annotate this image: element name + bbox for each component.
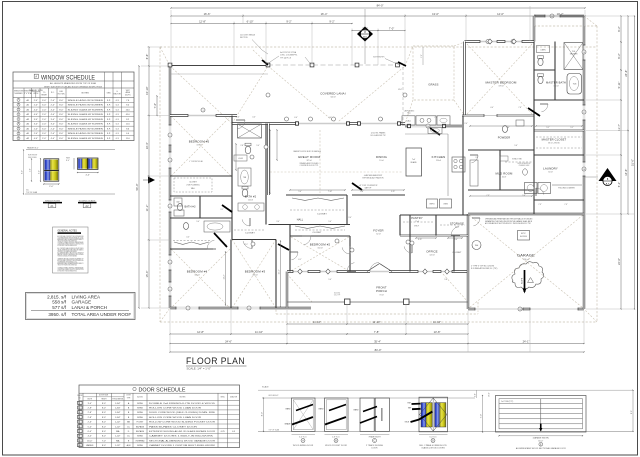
svg-text:WIDTH: WIDTH <box>33 93 38 95</box>
svg-text:13'-0": 13'-0" <box>432 12 439 16</box>
svg-text:4'-0": 4'-0" <box>252 117 256 119</box>
svg-text:40 s/f: 40 s/f <box>502 177 507 179</box>
svg-text:CABNET DOORS 1 BUILT-IN BILLWO: CABNET DOORS 1 BUILT-IN BILLWORK <box>149 435 214 438</box>
svg-text:MASTER CLOSET: MASTER CLOSET <box>542 138 567 142</box>
svg-text:SLIDING GLASS W/ SCREEN: SLIDING GLASS W/ SCREEN <box>68 108 104 111</box>
svg-text:SINGLE HUNG W/ SCREEN: SINGLE HUNG W/ SCREEN <box>68 105 104 107</box>
svg-text:BI-PASS: BI-PASS <box>136 425 145 428</box>
svg-text:84'-0": 84'-0" <box>375 348 382 352</box>
svg-text:1-1/2": 1-1/2" <box>115 426 121 428</box>
svg-text:100 s/f: 100 s/f <box>553 86 559 88</box>
svg-text:BUILT-IN BENCH W/: BUILT-IN BENCH W/ <box>518 163 532 165</box>
svg-text:PAINT: PAINT <box>286 408 291 411</box>
svg-text:8'-0": 8'-0" <box>102 436 106 438</box>
svg-text:TMP: TMP <box>407 402 410 404</box>
svg-text:372 s/f: 372 s/f <box>306 160 312 162</box>
svg-text:S.P.: S.P. <box>107 138 111 140</box>
svg-text:BI-PASS: BI-PASS <box>136 430 145 433</box>
svg-text:BEDROOM #2: BEDROOM #2 <box>310 243 331 247</box>
svg-text:7'-8": 7'-8" <box>374 330 379 334</box>
svg-text:SLOPE: SLOPE <box>521 277 523 284</box>
svg-text:(TUB PLUMBING): (TUB PLUMBING) <box>186 185 199 187</box>
svg-text:3'-0": 3'-0" <box>29 168 31 172</box>
svg-text:2'-8": 2'-8" <box>240 145 244 147</box>
svg-text:6'-2": 6'-2" <box>617 53 621 58</box>
svg-text:14'-0": 14'-0" <box>497 12 504 16</box>
svg-text:8'-0": 8'-0" <box>102 403 106 405</box>
svg-text:5'-0": 5'-0" <box>88 426 92 428</box>
svg-text:8'-0": 8'-0" <box>59 109 63 111</box>
svg-text:558 s/f: 558 s/f <box>523 259 529 261</box>
svg-text:3'-11": 3'-11" <box>391 191 396 193</box>
svg-text:DOUBLE 2x6 FRENCH LITE DOOR &: DOUBLE 2x6 FRENCH LITE DOOR & WOOD <box>149 403 216 405</box>
svg-text:KITCHEN: KITCHEN <box>432 155 446 159</box>
svg-text:15'-10": 15'-10" <box>145 87 149 95</box>
svg-text:A2: A2 <box>85 204 89 208</box>
svg-text:SEE SCHED.: SEE SCHED. <box>28 157 38 159</box>
svg-text:2'-0": 2'-0" <box>34 128 38 130</box>
svg-text:TYPE: TYPE <box>127 397 131 399</box>
svg-text:5'-1": 5'-1" <box>546 127 550 129</box>
svg-text:A1: A1 <box>50 204 54 208</box>
svg-text:CLOSET: CLOSET <box>245 233 255 235</box>
svg-text:CUBBIES OVER: CUBBIES OVER <box>519 165 529 167</box>
svg-text:SHELF: SHELF <box>414 226 419 228</box>
svg-text:4'-0": 4'-0" <box>34 114 38 116</box>
svg-text:10: 10 <box>79 445 81 447</box>
svg-text:3'-0": 3'-0" <box>42 105 46 107</box>
svg-text:7'-3": 7'-3" <box>538 204 542 206</box>
svg-text:DOOR: DOOR <box>372 448 379 450</box>
svg-text:CABNET DOORS 1 CUSTOM BUILT-IN: CABNET DOORS 1 CUSTOM BUILT-IN BILLWORK <box>149 444 216 447</box>
svg-text:GRADE: GRADE <box>284 423 291 426</box>
svg-text:84'-0": 84'-0" <box>377 4 384 8</box>
svg-text:BEDROOM #5: BEDROOM #5 <box>189 140 210 144</box>
svg-text:MASTER BATH: MASTER BATH <box>546 81 566 85</box>
svg-text:GLASS & WOOD DOORS: GLASS & WOOD DOORS <box>421 447 445 450</box>
svg-text:S.P.: S.P. <box>107 119 111 121</box>
svg-text:BEDROOM #4: BEDROOM #4 <box>187 270 208 274</box>
svg-text:16: 16 <box>583 52 585 54</box>
svg-text:3: 3 <box>79 412 80 414</box>
svg-text:(SQ FT): (SQ FT) <box>125 94 131 96</box>
svg-text:8'-0": 8'-0" <box>59 138 63 140</box>
svg-text:24'-6": 24'-6" <box>225 340 232 344</box>
svg-text:8'-0": 8'-0" <box>21 170 23 174</box>
svg-text:14'-6": 14'-6" <box>398 89 403 91</box>
svg-text:16'-4": 16'-4" <box>321 12 328 16</box>
svg-text:SWING: SWING <box>137 436 143 438</box>
svg-text:2'-8": 2'-8" <box>88 417 92 419</box>
svg-text:1-3/4": 1-3/4" <box>115 417 121 419</box>
svg-text:2x6 CONT. FASCIA: 2x6 CONT. FASCIA <box>240 34 256 37</box>
svg-text:3: 3 <box>169 160 170 162</box>
svg-text:5'-0": 5'-0" <box>196 221 200 223</box>
svg-text:160 s/f: 160 s/f <box>252 275 258 277</box>
svg-text:2'-6": 2'-6" <box>88 422 92 424</box>
svg-text:7: 7 <box>187 308 188 310</box>
svg-text:7'-0": 7'-0" <box>389 27 394 31</box>
svg-text:SWING: SWING <box>137 412 143 414</box>
svg-text:TOTAL AREA UNDER ROOF: TOTAL AREA UNDER ROOF <box>72 312 132 317</box>
svg-text:HDR HEIGHT: HDR HEIGHT <box>28 154 37 156</box>
svg-text:11'-10": 11'-10" <box>313 320 321 324</box>
svg-text:1-1/2": 1-1/2" <box>115 422 121 424</box>
svg-text:2'-0": 2'-0" <box>34 100 38 102</box>
svg-text:5'-2": 5'-2" <box>617 182 621 187</box>
svg-text:170 s/f: 170 s/f <box>196 145 202 147</box>
svg-text:13'-2": 13'-2" <box>224 274 226 279</box>
svg-text:16x16 SQ: 16x16 SQ <box>334 293 341 295</box>
svg-text:HDR: HDR <box>66 158 71 160</box>
svg-text:CC: CC <box>127 426 130 428</box>
svg-text:MUD ROOM: MUD ROOM <box>495 172 513 176</box>
svg-text:2'-0": 2'-0" <box>51 105 55 107</box>
svg-text:8'-0": 8'-0" <box>59 124 63 126</box>
svg-text:73 s/f: 73 s/f <box>379 294 384 296</box>
svg-text:HDR HEIGHT: HDR HEIGHT <box>269 395 279 397</box>
svg-text:7'-0": 7'-0" <box>102 440 106 442</box>
svg-text:2'-0": 2'-0" <box>42 114 46 116</box>
svg-text:8'-0": 8'-0" <box>631 410 633 414</box>
svg-text:7'-4": 7'-4" <box>153 103 157 108</box>
svg-text:2'-0": 2'-0" <box>42 124 46 126</box>
svg-text:CC: CC <box>127 436 130 438</box>
svg-text:1: 1 <box>202 110 203 112</box>
svg-text:8'-0": 8'-0" <box>59 128 63 130</box>
svg-text:10'-4": 10'-4" <box>145 142 149 149</box>
svg-text:SLIDING GLASS W/ SCREEN: SLIDING GLASS W/ SCREEN <box>68 113 104 116</box>
svg-text:2: 2 <box>169 135 170 137</box>
svg-text:6'-0" R.O.: 6'-0" R.O. <box>430 437 438 439</box>
svg-text:GARAGE: GARAGE <box>517 254 535 258</box>
svg-text:TOP OF SLAB: TOP OF SLAB <box>26 191 38 194</box>
svg-text:BATH #3: BATH #3 <box>184 206 195 209</box>
svg-text:OFFICE: OFFICE <box>426 250 438 254</box>
svg-text:NOTES: NOTES <box>82 92 90 94</box>
svg-text:105 s/f: 105 s/f <box>248 200 254 202</box>
svg-text:GARAGE: GARAGE <box>72 300 92 305</box>
svg-text:62 s/f: 62 s/f <box>376 234 381 236</box>
svg-text:SCALE: 1/4" = 1'-0": SCALE: 1/4" = 1'-0" <box>187 367 211 371</box>
svg-text:20: 20 <box>427 126 429 128</box>
svg-text:WIDTH: WIDTH <box>87 399 92 401</box>
svg-text:8'-11": 8'-11" <box>418 239 423 241</box>
svg-text:BATH #2: BATH #2 <box>245 195 257 199</box>
svg-text:PANTRY: PANTRY <box>411 216 423 220</box>
svg-text:12'-8": 12'-8" <box>197 330 204 334</box>
svg-text:PORCH: PORCH <box>376 289 387 293</box>
svg-text:DOOR: DOOR <box>77 395 82 397</box>
svg-text:6'-10": 6'-10" <box>247 20 254 24</box>
svg-text:8'-0": 8'-0" <box>59 114 63 116</box>
svg-text:3'-0": 3'-0" <box>42 128 46 130</box>
svg-text:S.P.: S.P. <box>107 114 111 116</box>
svg-text:GUTTER(TYP): GUTTER(TYP) <box>373 57 385 59</box>
svg-text:5'-4": 5'-4" <box>328 279 332 281</box>
svg-text:8'-8": 8'-8" <box>360 191 364 193</box>
svg-text:3'-0": 3'-0" <box>39 170 41 174</box>
svg-text:VERIFY SIZE WITH STYLES AND RO: VERIFY SIZE WITH STYLES AND ROUGH OPENIN… <box>44 85 103 88</box>
svg-text:11'-2": 11'-2" <box>145 205 149 212</box>
svg-text:A,M: A,M <box>127 444 131 447</box>
svg-text:1: 1 <box>79 403 80 405</box>
svg-text:4'-0": 4'-0" <box>51 109 55 111</box>
svg-text:ALUMINUM AND WOOD SECTIONAL GA: ALUMINUM AND WOOD SECTIONAL GARAGE DOOR <box>516 447 566 450</box>
svg-text:13'-8": 13'-8" <box>434 330 441 334</box>
svg-text:5'-11": 5'-11" <box>617 82 621 89</box>
svg-text:FOLDING COUNTER: FOLDING COUNTER <box>558 188 575 190</box>
svg-text:2'-8": 2'-8" <box>88 408 92 410</box>
svg-text:5'-6": 5'-6" <box>514 145 518 147</box>
svg-text:15'-4": 15'-4" <box>145 271 149 278</box>
svg-text:POCKET: POCKET <box>137 422 144 424</box>
svg-text:2'-8" R.O.: 2'-8" R.O. <box>332 437 340 439</box>
svg-text:GRASS: GRASS <box>428 83 438 87</box>
svg-text:8'-0": 8'-0" <box>66 160 70 162</box>
svg-text:GENERAL NOTES: GENERAL NOTES <box>58 230 78 233</box>
svg-text:8'-0": 8'-0" <box>59 133 63 135</box>
svg-text:6'-1": 6'-1" <box>298 259 302 261</box>
svg-text:COVERED LANAI: COVERED LANAI <box>320 92 345 96</box>
svg-text:16'-0": 16'-0" <box>489 392 491 397</box>
svg-text:SECTION: SECTION <box>240 37 248 39</box>
svg-text:COL. TYP: COL. TYP <box>334 295 340 297</box>
svg-text:6: 6 <box>79 426 80 428</box>
svg-text:3'-0": 3'-0" <box>42 100 46 102</box>
svg-text:2'-0": 2'-0" <box>42 119 46 121</box>
svg-text:6'-0": 6'-0" <box>88 431 92 433</box>
svg-text:8'-0": 8'-0" <box>102 422 106 424</box>
svg-text:7'-3": 7'-3" <box>564 204 568 206</box>
svg-text:2'-0": 2'-0" <box>42 138 46 140</box>
svg-text:150 s/f: 150 s/f <box>317 248 323 250</box>
svg-text:LINEN: LINEN <box>541 49 547 51</box>
svg-text:LANAI & PORCH: LANAI & PORCH <box>72 305 107 310</box>
svg-text:BEDROOM #3: BEDROOM #3 <box>245 270 266 274</box>
svg-text:15 s/f: 15 s/f <box>455 227 460 229</box>
svg-text:6'-0": 6'-0" <box>294 117 298 119</box>
svg-text:2'-0": 2'-0" <box>464 123 468 125</box>
svg-text:9: 9 <box>79 440 80 442</box>
svg-text:9'-2": 9'-2" <box>329 20 334 24</box>
svg-text:8'-0": 8'-0" <box>102 426 106 428</box>
svg-text:A: A <box>35 75 37 79</box>
svg-text:4'-0": 4'-0" <box>86 174 91 176</box>
svg-text:2x6 TRIM (TYP): 2x6 TRIM (TYP) <box>501 401 514 403</box>
svg-text:17 s/f: 17 s/f <box>415 221 420 223</box>
svg-text:16'-0": 16'-0" <box>87 440 92 442</box>
svg-text:60 s/f: 60 s/f <box>548 172 553 174</box>
svg-text:8'-0": 8'-0" <box>102 408 106 410</box>
svg-text:FOYER: FOYER <box>373 229 383 233</box>
svg-text:3'-1": 3'-1" <box>220 209 224 211</box>
svg-text:1-3/4": 1-3/4" <box>115 403 121 405</box>
svg-text:3'-0": 3'-0" <box>348 217 352 219</box>
svg-text:11'-10": 11'-10" <box>372 320 380 324</box>
svg-text:11'-7": 11'-7" <box>617 124 621 131</box>
svg-text:4'-0": 4'-0" <box>51 114 55 116</box>
svg-text:8'-0": 8'-0" <box>102 417 106 419</box>
svg-text:3950. s/f: 3950. s/f <box>48 312 66 317</box>
svg-text:2,815. s/f: 2,815. s/f <box>47 294 67 299</box>
svg-text:S.P.: S.P. <box>107 105 111 107</box>
svg-text:3'-0": 3'-0" <box>51 124 55 126</box>
svg-text:DINING: DINING <box>376 155 388 159</box>
svg-text:THICKNESS: THICKNESS <box>112 399 123 401</box>
svg-text:2'-8": 2'-8" <box>88 412 92 414</box>
svg-text:SINGLE HUNG W/ SCREEN: SINGLE HUNG W/ SCREEN <box>68 100 104 102</box>
svg-text:120 s/f: 120 s/f <box>429 255 435 257</box>
svg-text:(GARAGE WIDTH): (GARAGE WIDTH) <box>533 437 549 440</box>
svg-text:8: 8 <box>248 308 249 310</box>
svg-text:1'-0": 1'-0" <box>475 393 477 397</box>
svg-text:TYP. (4) PLCS: TYP. (4) PLCS <box>280 57 292 59</box>
svg-text:S.P.: S.P. <box>107 109 111 111</box>
svg-text:HOLLOW CORE WOOD LUAN DOOR: HOLLOW CORE WOOD LUAN DOOR <box>149 416 202 419</box>
svg-text:HOLLOW CORE WOOD LUAN DOOR: HOLLOW CORE WOOD LUAN DOOR <box>149 407 202 410</box>
svg-text:HGT. HDR.: HGT. HDR. <box>58 94 66 96</box>
svg-text:STILE: STILE <box>405 421 409 423</box>
svg-text:1-3/4": 1-3/4" <box>115 408 121 410</box>
svg-text:WOOD POCKET DOOR: WOOD POCKET DOOR <box>325 445 347 447</box>
svg-text:DOOR SIZE: DOOR SIZE <box>99 395 109 397</box>
svg-text:POWDER: POWDER <box>498 136 511 140</box>
svg-text:HEIGHT: HEIGHT <box>101 399 106 401</box>
svg-text:NUMBER: NUMBER <box>15 93 24 95</box>
svg-text:CLOSET: CLOSET <box>453 252 463 254</box>
svg-text:3'-0": 3'-0" <box>475 157 479 159</box>
svg-text:3'-0" R.O.: 3'-0" R.O. <box>299 437 307 439</box>
svg-text:SINGLE HUNG W/ SCREEN: SINGLE HUNG W/ SCREEN <box>68 133 104 135</box>
svg-text:224 s/f: 224 s/f <box>436 160 442 162</box>
svg-text:558 s/f: 558 s/f <box>52 300 67 305</box>
svg-text:2'-0": 2'-0" <box>42 109 46 111</box>
svg-text:22'-0": 22'-0" <box>617 258 621 265</box>
svg-text:REFIG: REFIG <box>430 204 436 206</box>
svg-text:WINDOW: WINDOW <box>14 91 23 93</box>
svg-text:7'-10": 7'-10" <box>328 191 333 193</box>
svg-text:CLOSET: CLOSET <box>313 232 323 234</box>
svg-text:7'-8": 7'-8" <box>518 107 522 109</box>
svg-text:S.P.: S.P. <box>107 100 111 102</box>
svg-text:WOOD SWING DOOR: WOOD SWING DOOR <box>293 445 314 447</box>
svg-text:GREAT ROOM: GREAT ROOM <box>298 155 321 159</box>
svg-text:577 s/f: 577 s/f <box>52 305 67 310</box>
svg-text:51'-0": 51'-0" <box>631 159 635 166</box>
svg-text:NOTES: NOTES <box>180 396 187 398</box>
svg-text:HEADER 8'-0": HEADER 8'-0" <box>27 146 39 149</box>
svg-text:16'-6": 16'-6" <box>204 12 211 16</box>
svg-text:S.P.: S.P. <box>107 124 111 126</box>
svg-text:8'-0": 8'-0" <box>59 105 63 107</box>
svg-text:3'-0": 3'-0" <box>34 119 38 121</box>
svg-text:4'-0": 4'-0" <box>186 237 190 239</box>
svg-text:8: 8 <box>79 436 80 438</box>
svg-text:8'-0": 8'-0" <box>59 100 63 102</box>
svg-text:R.O.: R.O. <box>51 92 55 94</box>
svg-text:8'-0": 8'-0" <box>261 412 263 417</box>
svg-text:6'-6": 6'-6" <box>145 54 149 59</box>
svg-text:2'-0": 2'-0" <box>51 100 55 102</box>
svg-text:7'-0": 7'-0" <box>434 117 438 119</box>
svg-text:EGR.: EGR. <box>59 91 63 93</box>
svg-text:5'-0": 5'-0" <box>256 145 260 147</box>
svg-text:DOOR SCHEDULE: DOOR SCHEDULE <box>139 387 186 393</box>
svg-text:4" TYPE "X" GYP. BD. CLNG W/: 4" TYPE "X" GYP. BD. CLNG W/ <box>471 266 495 268</box>
svg-text:4'-0": 4'-0" <box>34 109 38 111</box>
svg-text:EXTERIOR SLIDING ALUM. W GLASS: EXTERIOR SLIDING ALUM. W GLASS BI-PASS D… <box>149 430 216 433</box>
svg-text:15'-1": 15'-1" <box>279 269 281 274</box>
svg-text:S.P.: S.P. <box>107 128 111 130</box>
svg-text:7'-2": 7'-2" <box>421 54 423 58</box>
svg-text:6: 6 <box>169 289 170 291</box>
svg-text:4'-0": 4'-0" <box>88 436 92 438</box>
svg-text:DOOR: DOOR <box>126 395 130 397</box>
svg-text:VARIES: VARIES <box>86 444 94 447</box>
svg-text:6x6 POST W/ 12"DIA: 6x6 POST W/ 12"DIA <box>280 51 297 54</box>
svg-text:3'-4": 3'-4" <box>506 127 510 129</box>
svg-text:24'-1": 24'-1" <box>523 340 530 344</box>
svg-text:S.P.: S.P. <box>107 133 111 135</box>
svg-text:2'-0": 2'-0" <box>51 128 55 130</box>
svg-text:SLIDING GLASS W/ SCREEN: SLIDING GLASS W/ SCREEN <box>68 123 104 126</box>
svg-text:5: 5 <box>169 262 170 264</box>
svg-text:+42" CONT. COUNTERTOP: +42" CONT. COUNTERTOP <box>359 185 378 187</box>
svg-text:HEIGHT: HEIGHT <box>41 94 47 96</box>
svg-text:D: D <box>432 440 434 443</box>
svg-text:19: 19 <box>519 309 521 311</box>
svg-text:4'-0": 4'-0" <box>34 138 38 140</box>
svg-text:8'-0": 8'-0" <box>102 445 106 447</box>
svg-text:4'-0": 4'-0" <box>51 138 55 140</box>
svg-text:2'-0": 2'-0" <box>51 133 55 135</box>
svg-text:2'-0": 2'-0" <box>49 186 54 188</box>
svg-text:12'-8": 12'-8" <box>199 20 206 24</box>
svg-text:SWING: SWING <box>137 403 143 405</box>
svg-text:CONCRETE FLOOR TYP.: CONCRETE FLOOR TYP. <box>300 165 319 167</box>
svg-text:4'-0": 4'-0" <box>490 107 494 109</box>
svg-text:ALL HEIGHTS MEASURED FROM TOP: ALL HEIGHTS MEASURED FROM TOP OF SLAB <box>50 82 97 85</box>
svg-text:2 TRACK SLIDING: 2 TRACK SLIDING <box>366 444 383 447</box>
svg-text:ISLAND: ISLAND <box>410 161 417 164</box>
svg-text:SHOWER: SHOWER <box>570 54 578 56</box>
svg-text:5'-8": 5'-8" <box>444 279 448 281</box>
svg-text:24'-8": 24'-8" <box>624 70 628 77</box>
svg-text:3'-0": 3'-0" <box>276 221 280 223</box>
svg-text:CLOSET: CLOSET <box>317 214 327 216</box>
svg-text:SWING: SWING <box>137 408 143 410</box>
svg-text:1-1/2": 1-1/2" <box>115 445 121 447</box>
svg-text:3'-0": 3'-0" <box>88 403 92 405</box>
svg-text:5: 5 <box>79 422 80 424</box>
svg-text:17: 17 <box>583 112 585 114</box>
svg-text:SLIDING GLASS W/ SCREEN: SLIDING GLASS W/ SCREEN <box>68 118 104 121</box>
svg-text:MASTER BEDROOM: MASTER BEDROOM <box>486 81 517 85</box>
svg-text:SWING: SWING <box>137 417 143 419</box>
svg-text:18: 18 <box>583 169 585 171</box>
svg-text:SLIDING GLASS W/ SCREEN: SLIDING GLASS W/ SCREEN <box>68 137 104 140</box>
svg-text:6'-2": 6'-2" <box>617 26 621 31</box>
svg-text:WH: WH <box>475 245 479 247</box>
svg-text:178 s/f: 178 s/f <box>498 86 504 88</box>
svg-text:8'-0": 8'-0" <box>59 119 63 121</box>
svg-text:TMP: TMP <box>408 408 411 410</box>
svg-text:166 s/f: 166 s/f <box>194 275 200 277</box>
svg-text:PAINT: PAINT <box>354 409 359 412</box>
svg-text:504 s/f: 504 s/f <box>330 97 336 99</box>
svg-text:STORAGE: STORAGE <box>450 222 464 226</box>
